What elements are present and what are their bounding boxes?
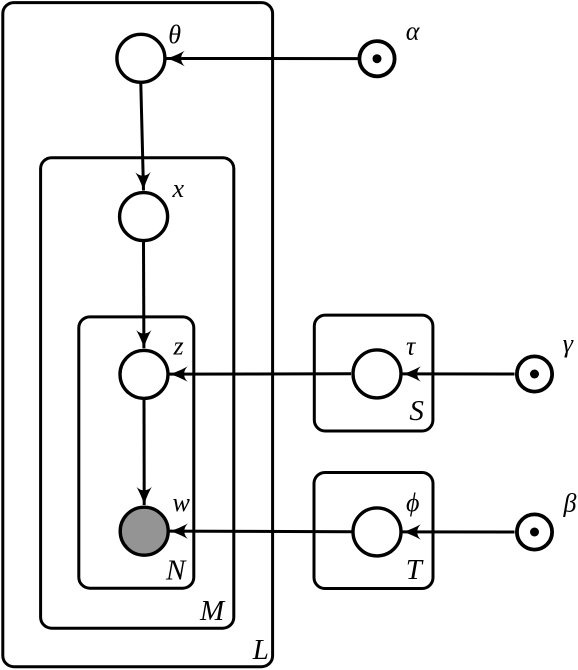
node beta dot [530,528,539,537]
svg-text:N: N [165,555,187,587]
wire gamma to tau [403,372,515,375]
svg-text:γ: γ [563,329,574,358]
svg-text:τ: τ [406,332,417,361]
svg-text:w: w [173,488,191,517]
node beta (fixed hyperparameter) [517,514,552,549]
plate S [314,315,433,431]
svg-text:β: β [563,489,577,518]
node alpha dot [373,54,382,63]
wire beta to phi [403,530,515,533]
plate T [314,473,433,589]
svg-text:θ: θ [168,20,181,49]
wire z to w [143,400,146,506]
plate M [41,158,234,629]
wire theta to x [141,84,144,191]
svg-text:M: M [199,595,226,627]
wire tau to z [169,372,351,375]
node tau [353,350,401,398]
svg-text:z: z [173,332,184,361]
svg-text:x: x [172,174,185,203]
svg-text:α: α [406,16,421,45]
plate L [3,3,273,667]
node w (observed, shaded) [120,507,168,555]
node gamma dot [530,370,539,379]
svg-text:ϕ: ϕ [406,488,419,517]
svg-text:L: L [252,634,269,666]
svg-text:T: T [406,554,424,586]
node theta [117,34,165,82]
plate N [79,317,194,588]
node z [120,350,168,398]
svg-text:S: S [409,395,424,427]
node x [120,193,168,241]
node gamma (fixed hyperparameter) [517,356,552,391]
wire phi to w [170,530,352,534]
node alpha (fixed hyperparameter) [359,41,394,76]
wire x to z [142,242,145,348]
node phi [353,508,401,556]
wire alpha to theta [166,57,358,60]
